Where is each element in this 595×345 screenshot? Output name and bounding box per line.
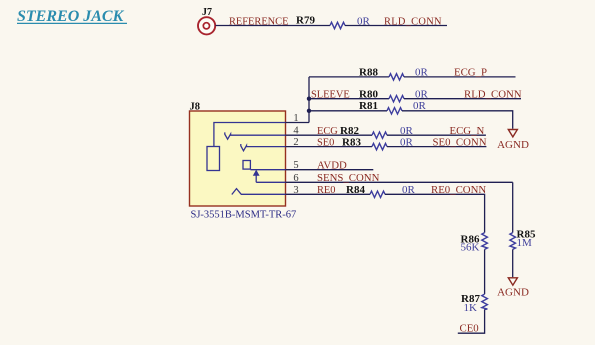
J8 switch arrow pin6 — [253, 170, 260, 183]
svg-text:SE0: SE0 — [317, 137, 334, 148]
resistor R85 body — [510, 233, 516, 250]
wire R85 to AGND — [512, 249, 514, 277]
resistor R79 body — [330, 22, 345, 28]
resistor R81 body — [387, 108, 402, 114]
wire ECG_N — [387, 134, 486, 136]
wire pin6 row SENS_CONN — [286, 181, 513, 183]
svg-text:SE0_CONN: SE0_CONN — [433, 136, 487, 148]
wire pin4 row ECG — [286, 134, 373, 136]
svg-text:56K: 56K — [461, 242, 480, 254]
wire R87 to CE0 — [458, 309, 485, 333]
svg-text:ECG_N: ECG_N — [450, 125, 485, 137]
resistor R84 body — [370, 191, 385, 197]
junction dot sleeve/R80 — [307, 97, 311, 101]
wire R81 row left — [309, 110, 387, 112]
svg-text:R82: R82 — [340, 125, 359, 137]
resistor R88 body — [389, 74, 404, 80]
ground AGND lower — [497, 278, 529, 299]
svg-text:R84: R84 — [346, 184, 365, 196]
svg-text:R80: R80 — [359, 88, 378, 100]
svg-text:ECG_P: ECG_P — [454, 67, 487, 79]
svg-text:R83: R83 — [342, 136, 361, 148]
svg-text:R79: R79 — [296, 14, 315, 26]
svg-text:RLD_CONN: RLD_CONN — [464, 89, 522, 101]
svg-text:REFERENCE: REFERENCE — [229, 17, 288, 28]
svg-text:R81: R81 — [359, 100, 378, 112]
wire ECG_P — [404, 76, 516, 78]
J8 switch caret pin3 — [232, 189, 241, 195]
wire pin5 internal — [250, 169, 285, 171]
wire pin1 stub to sleeve bus — [286, 122, 310, 124]
wire SE0_CONN — [387, 146, 486, 148]
title STEREO JACK — [17, 8, 127, 25]
svg-text:SJ-3551B-MSMT-TR-67: SJ-3551B-MSMT-TR-67 — [191, 209, 297, 220]
wire pin4 internal — [230, 134, 286, 136]
J8 ring contact pin2 — [241, 144, 247, 151]
connector J7 — [198, 7, 215, 34]
J8 sleeve terminal rectangle — [207, 147, 220, 171]
resistor R86 body — [482, 233, 488, 250]
svg-text:SENS_CONN: SENS_CONN — [317, 172, 380, 184]
J8 terminal square pin5 — [243, 161, 250, 170]
svg-text:CE0: CE0 — [460, 322, 479, 334]
wire REFERENCE net (J7 to R79) — [216, 25, 331, 27]
svg-text:AGND: AGND — [497, 139, 529, 151]
wire RE0_CONN — [385, 194, 485, 232]
part J8 body — [190, 102, 286, 206]
wire pin5 row AVDD — [286, 169, 374, 171]
wire sleeve vertical bus — [308, 77, 310, 123]
resistor R82 body — [372, 132, 387, 138]
wire pin2 internal — [246, 146, 286, 148]
svg-text:STEREO JACK: STEREO JACK — [17, 8, 125, 25]
wire SENS vertical to R85 — [512, 182, 514, 232]
junction dot sleeve/R81 — [307, 109, 311, 113]
svg-text:AGND: AGND — [497, 286, 529, 298]
wire RLD_CONN (R79 right) — [345, 25, 447, 27]
wire R80 row left — [309, 98, 389, 100]
svg-text:1M: 1M — [517, 237, 533, 249]
svg-text:R88: R88 — [359, 67, 378, 79]
wire pin6 internal — [256, 181, 285, 183]
wire pin1 internal — [214, 123, 286, 147]
resistor R80 body — [389, 96, 404, 102]
svg-text:1K: 1K — [464, 302, 478, 314]
wire pin2 row SE0 — [286, 146, 373, 148]
wire pin3 row RE0 — [286, 193, 371, 195]
J8 tip contact pin4 — [225, 132, 231, 139]
ground AGND upper — [497, 130, 529, 151]
wire R81 to AGND corner — [402, 111, 513, 129]
svg-text:AVDD: AVDD — [317, 159, 347, 171]
svg-text:RE0: RE0 — [317, 185, 335, 196]
wire R88 row left — [309, 76, 389, 78]
wire RLD_CONN row — [404, 98, 521, 100]
wire R86 to R87 — [484, 249, 486, 294]
svg-text:ECG: ECG — [317, 126, 338, 137]
resistor R87 body — [482, 294, 488, 309]
svg-text:RLD_CONN: RLD_CONN — [384, 17, 442, 28]
svg-text:RE0_CONN: RE0_CONN — [431, 184, 486, 196]
resistor R83 body — [372, 143, 387, 149]
wire pin3 internal — [241, 193, 286, 195]
